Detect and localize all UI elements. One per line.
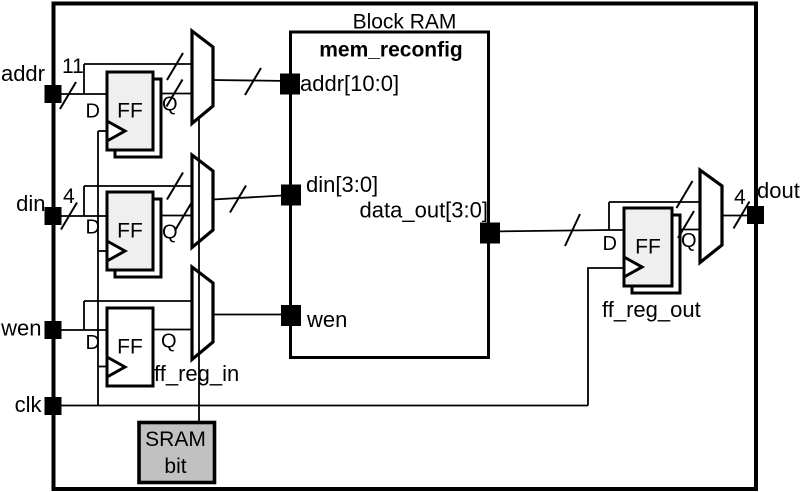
mux M4 (dout) [700,170,722,263]
flip-flop FF1 clock triangle [107,121,125,141]
svg-text:FF: FF [635,236,661,259]
flip-flop FF4 clock triangle [624,257,642,277]
wire clk stub FF2 [98,250,107,252]
flip-flop FF3 clock triangle [107,357,125,377]
svg-text:Q: Q [681,230,697,252]
svg-text:mem_reconfig: mem_reconfig [319,39,463,62]
wire SRAM bit select line to mux selects [198,117,200,423]
svg-text:clk: clk [15,392,43,417]
svg-text:wen: wen [0,316,41,341]
RAM port addr[10:0] [280,74,300,95]
svg-text:FF: FF [117,220,143,243]
svg-text:D: D [86,217,100,239]
wire data_out bypass to mux M4 input 0 [609,201,700,203]
svg-text:din[3:0]: din[3:0] [306,172,378,197]
flip-flop FF2 (din, ff_reg_in) shadow [115,199,161,277]
RAM port data_out[3:0] [480,223,500,244]
wire addr bus from port to ff_reg_in D [53,93,107,95]
bus slash addr Q [167,80,183,107]
mux M1 (addr) [192,31,213,124]
svg-text:addr[10:0]: addr[10:0] [300,71,399,96]
flip-flop FF2 clock triangle [107,241,125,261]
port addr [45,85,62,103]
port din [45,207,62,225]
wire addr bypass riser [83,64,85,94]
svg-text:4: 4 [63,185,75,208]
port dout [747,206,764,224]
bus slash mux M2 output [230,186,246,213]
flip-flop FF4 (ff_reg_out) shadow [632,215,680,293]
bus slash din input [61,203,77,230]
svg-text:D: D [86,101,100,123]
wire clk trunk [53,405,588,407]
wire addr bypass to mux M1 input 0 [84,63,192,65]
wire mux M4 output to dout port [722,215,747,217]
Block RAM mem_reconfig box [291,32,489,358]
svg-text:ff_reg_out: ff_reg_out [602,297,701,322]
wire mux M3 output to RAM wen port [213,314,291,316]
flip-flop FF2 (din, ff_reg_in) body [107,192,153,270]
mux M3 (wen) [192,267,213,360]
bus slash din Q [175,204,191,231]
bus slash addr bypass [167,53,183,80]
svg-text:D: D [603,233,617,255]
wire mux M2 output to RAM din[3:0] port [213,195,291,200]
svg-text:Q: Q [161,331,177,353]
wire din bypass riser [83,186,85,216]
wire wen bypass to mux M3 input 0 [84,300,192,302]
port wen [45,321,62,339]
wire data_out bypass riser [608,202,610,230]
svg-text:Q: Q [162,222,178,244]
wire clk riser to ff_reg_out [588,268,624,406]
svg-text:FF: FF [117,336,143,359]
port clk [45,397,62,415]
bus slash data_out [565,214,580,246]
svg-text:din: din [16,191,45,216]
wire clk stub FF3 [98,366,107,368]
bus slash mux M4 output [734,202,750,229]
svg-text:data_out[3:0]: data_out[3:0] [360,198,488,223]
svg-text:11: 11 [62,55,84,78]
svg-text:wen: wen [306,307,347,332]
wire din bypass to mux M2 input 0 [84,185,192,187]
svg-text:SRAM: SRAM [145,428,206,451]
svg-text:ff_reg_in: ff_reg_in [154,361,239,386]
svg-text:Q: Q [162,94,178,116]
RAM port wen [281,305,301,326]
wire wen bypass riser [83,301,85,330]
wire clk stub FF1 [98,130,107,132]
wire wen from port to ff_reg_in D [53,329,107,331]
wire din bus from port to ff_reg_in D [53,215,107,217]
flip-flop FF1 (addr, ff_reg_in) shadow [115,79,161,157]
bus slash addr input [60,82,76,109]
svg-text:addr: addr [1,61,45,86]
bus slash mux M1 output [245,68,261,95]
svg-text:Block RAM: Block RAM [353,11,457,34]
wire clk distribution riser to input FFs [97,131,99,406]
wire wen FF Q to mux M3 input 1 [153,329,192,331]
RAM port din[3:0] [281,185,301,206]
wire RAM data_out to ff_reg_out D [490,230,624,232]
bus slash din bypass [167,173,183,200]
svg-text:D: D [86,332,100,354]
flip-flop FF4 (ff_reg_out) body [624,208,672,286]
svg-text:bit: bit [164,455,186,478]
bus slash ff_reg_out Q [678,211,694,238]
flip-flop FF1 (addr, ff_reg_in) body [107,72,153,150]
bus slash data_out bypass [677,181,693,208]
svg-text:4: 4 [734,186,746,209]
svg-text:FF: FF [117,100,143,123]
wire din FF Q to mux M2 input 1 [159,215,192,217]
flip-flop FF3 (wen, ff_reg_in) body [107,308,153,386]
SRAM bit cell [139,423,215,483]
wire addr FF Q to mux M1 input 1 [159,93,192,95]
svg-text:dout: dout [757,178,800,203]
wire ff_reg_out Q to mux M4 input 1 [678,229,700,231]
mux M2 (din) [192,155,213,248]
wire mux M1 output to RAM addr[10:0] port [213,80,290,81]
